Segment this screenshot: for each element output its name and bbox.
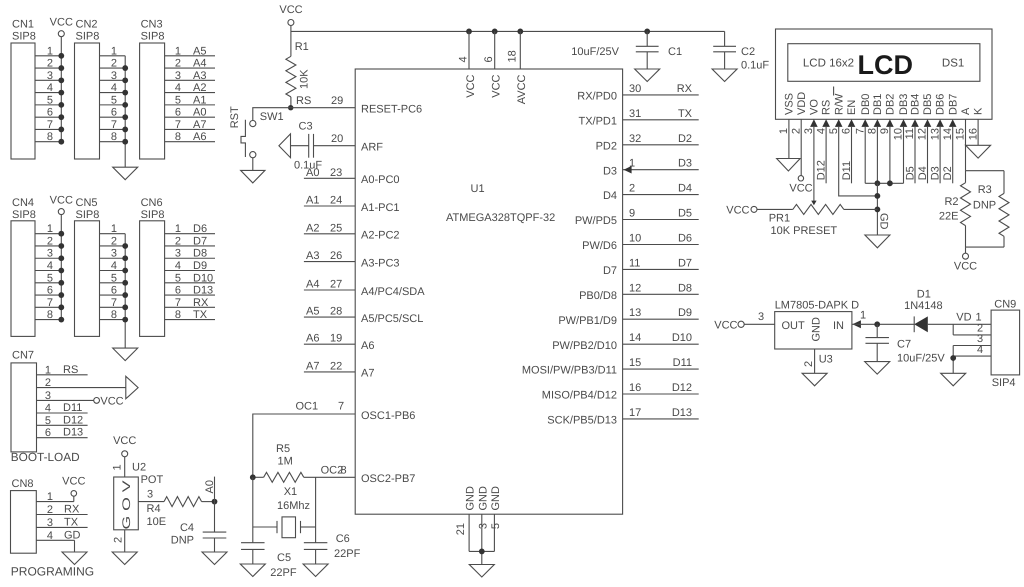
svg-text:6: 6	[47, 285, 53, 297]
resistor R1 10K	[286, 41, 311, 97]
svg-text:A6: A6	[306, 333, 319, 345]
svg-text:7: 7	[175, 119, 181, 131]
svg-text:DNP: DNP	[171, 535, 194, 547]
wire U1 pin 27 net A4	[304, 279, 355, 291]
svg-text:2: 2	[111, 58, 117, 70]
svg-text:VCC: VCC	[50, 195, 73, 207]
svg-text:CN8: CN8	[12, 478, 34, 490]
svg-text:OUT: OUT	[782, 320, 806, 332]
wire C3 to arrow symbol	[291, 145, 309, 147]
junction dot CN9 ground	[950, 355, 956, 361]
svg-text:RX/PD0: RX/PD0	[577, 91, 617, 103]
wire U1 VCC pin 4 stub	[458, 31, 470, 69]
svg-text:9: 9	[629, 208, 635, 220]
svg-text:VCC: VCC	[789, 183, 812, 195]
svg-text:OSC2-PB7: OSC2-PB7	[361, 473, 415, 485]
svg-text:A1: A1	[193, 94, 206, 106]
ground symbol below GD	[865, 235, 890, 248]
wire U1 pin 17 net D13	[623, 407, 699, 419]
svg-text:A3: A3	[306, 250, 319, 262]
svg-text:DB4: DB4	[910, 94, 922, 115]
svg-text:27: 27	[330, 279, 342, 291]
svg-text:10uF/25V: 10uF/25V	[571, 46, 619, 58]
capacitor C6 22PF	[304, 533, 361, 564]
svg-text:5: 5	[111, 94, 117, 106]
svg-text:D8: D8	[193, 248, 207, 260]
wire LCD pin 15 A to R2 R3	[966, 119, 1005, 170]
svg-text:7: 7	[854, 128, 866, 134]
ground symbol below C6	[303, 564, 328, 577]
wire U1 pin 10 net D6	[623, 233, 699, 245]
wire U1 pin 2 net D4	[623, 183, 699, 195]
svg-text:31: 31	[629, 108, 641, 120]
wire CN7 pin 3 to VCC	[37, 390, 94, 402]
svg-text:D3: D3	[930, 166, 942, 180]
resistor R5 1M	[253, 443, 304, 482]
display DS1 LCD 16x2	[776, 29, 993, 119]
svg-text:GD: GD	[877, 213, 889, 230]
svg-text:IN: IN	[833, 320, 844, 332]
connector CN4 SIP8	[11, 197, 36, 336]
svg-text:VCC: VCC	[491, 74, 503, 97]
svg-text:12: 12	[917, 128, 929, 140]
svg-text:3: 3	[478, 523, 490, 529]
svg-text:16Mhz: 16Mhz	[277, 500, 310, 512]
ground symbol below U1	[469, 565, 494, 578]
wire CN7 pin 2 to off-page arrow	[37, 377, 126, 389]
svg-text:0.1uF: 0.1uF	[294, 160, 322, 172]
svg-text:3: 3	[175, 248, 181, 260]
svg-text:5: 5	[47, 272, 53, 284]
svg-text:ARF: ARF	[361, 142, 383, 154]
svg-text:6: 6	[841, 128, 853, 134]
svg-text:3: 3	[758, 311, 764, 323]
svg-text:5: 5	[111, 272, 117, 284]
resistor R4 10E	[147, 497, 202, 528]
junction dot OC1/crystal	[250, 474, 256, 480]
svg-text:D7: D7	[603, 265, 617, 277]
svg-text:C1: C1	[668, 46, 682, 58]
svg-text:TX: TX	[678, 108, 693, 120]
svg-text:3: 3	[47, 248, 53, 260]
svg-text:D4: D4	[917, 166, 929, 180]
svg-text:6: 6	[111, 285, 117, 297]
svg-text:D7: D7	[678, 257, 692, 269]
ground symbol below C5	[240, 564, 265, 577]
svg-text:RX: RX	[64, 504, 80, 516]
svg-text:4: 4	[175, 82, 181, 94]
svg-text:RS: RS	[821, 100, 833, 115]
svg-text:17: 17	[629, 407, 641, 419]
svg-text:VCC: VCC	[714, 320, 737, 332]
svg-text:2: 2	[47, 58, 53, 70]
svg-text:SIP8: SIP8	[12, 31, 36, 43]
power VCC symbol at CN7 pin 3	[94, 396, 124, 408]
connector CN3 SIP8	[140, 19, 165, 160]
svg-text:A2: A2	[193, 82, 206, 94]
svg-text:POT: POT	[141, 474, 164, 486]
svg-text:20: 20	[331, 133, 343, 145]
svg-text:12: 12	[629, 282, 641, 294]
svg-text:DB2: DB2	[885, 94, 897, 115]
svg-text:U3: U3	[819, 354, 833, 366]
wire VCC to R1	[290, 26, 292, 57]
svg-text:10uF/25V: 10uF/25V	[897, 353, 945, 365]
svg-text:OC1: OC1	[296, 401, 319, 413]
wire VCC power rail to U1 and C1 C2	[291, 30, 725, 32]
svg-text:VCC: VCC	[113, 435, 136, 447]
svg-text:10K: 10K	[299, 69, 311, 89]
svg-text:DB7: DB7	[947, 94, 959, 115]
wire U1 pin 15 net D11	[623, 357, 699, 369]
ground symbol below CN8	[62, 552, 87, 565]
arrow into U3 IN pin 1	[852, 320, 861, 328]
svg-text:14: 14	[942, 128, 954, 140]
power VCC symbol above CN4 bus	[50, 195, 73, 215]
svg-text:4: 4	[111, 260, 117, 272]
svg-text:A1-PC1: A1-PC1	[361, 202, 400, 214]
junction dot GND bus	[479, 549, 485, 555]
wire CN8 pin 1 to VCC	[36, 491, 74, 503]
wire U2 pin 1 from VCC	[112, 457, 125, 477]
svg-text:K: K	[973, 107, 985, 115]
svg-text:A2: A2	[306, 222, 319, 234]
svg-text:4: 4	[47, 530, 53, 542]
svg-text:PW/PB1/D9: PW/PB1/D9	[558, 315, 617, 327]
wire VCC to PR1	[757, 208, 793, 210]
svg-text:EN: EN	[846, 100, 858, 115]
capacitor C4 DNP	[171, 502, 227, 552]
junction dots on VCC rail	[466, 29, 650, 35]
arrows into LCD pins 3-14	[810, 119, 956, 127]
svg-text:VCC: VCC	[62, 476, 85, 488]
junction dots CN4 bus	[58, 231, 64, 323]
ground symbol below LCD pin 16	[966, 145, 991, 158]
node RS junction	[288, 95, 311, 110]
svg-text:D4: D4	[678, 183, 692, 195]
svg-text:VDD: VDD	[796, 92, 808, 115]
switch SW1 RST	[229, 106, 284, 158]
wire CN4 pins to VCC bus	[35, 215, 61, 321]
svg-text:SIP8: SIP8	[76, 209, 100, 221]
svg-text:2: 2	[47, 235, 53, 247]
svg-text:19: 19	[330, 333, 342, 345]
svg-text:TX/PD1: TX/PD1	[578, 115, 617, 127]
junction dot at C7	[874, 321, 880, 327]
svg-text:SIP4: SIP4	[992, 377, 1016, 389]
svg-text:10: 10	[629, 233, 641, 245]
svg-text:A0: A0	[204, 480, 216, 493]
svg-text:7: 7	[111, 119, 117, 131]
wire R1 to RS node	[290, 97, 292, 108]
svg-text:15: 15	[629, 357, 641, 369]
svg-text:SIP8: SIP8	[141, 31, 165, 43]
ground symbol below C1	[635, 69, 660, 82]
wire CN7 pin 4 net D11	[37, 402, 88, 415]
svg-text:D2: D2	[678, 133, 692, 145]
arrow into U1 pin 1 D3	[624, 166, 632, 174]
svg-text:7: 7	[47, 119, 53, 131]
ground symbol below LCD pin 1	[777, 159, 801, 172]
svg-text:16: 16	[967, 128, 979, 140]
wire U1 pin 26 net A3	[304, 250, 355, 262]
svg-text:PW/PB2/D10: PW/PB2/D10	[552, 340, 617, 352]
svg-text:LCD 16x2: LCD 16x2	[803, 58, 854, 70]
wire CN1 pins to VCC bus	[35, 37, 61, 143]
wire U1 pin 24 net A1	[304, 195, 355, 207]
svg-text:3: 3	[47, 517, 53, 529]
svg-text:30: 30	[629, 83, 641, 95]
wire U1 pin 19 net A6	[304, 333, 355, 345]
svg-text:GND: GND	[811, 317, 823, 342]
svg-text:DB1: DB1	[872, 94, 884, 115]
svg-text:21: 21	[455, 523, 467, 535]
connector CN2 SIP8	[75, 19, 100, 160]
svg-text:CN2: CN2	[76, 19, 98, 31]
junction dots CN1 bus	[58, 53, 64, 145]
overline on LCD R/W pin label	[833, 87, 835, 96]
svg-text:R5: R5	[276, 443, 290, 455]
wires CN6 pins with net labels D6 D7 D8 D9 D10 D13 RX TX	[165, 223, 215, 321]
svg-text:PR1: PR1	[769, 213, 790, 225]
svg-text:LCD: LCD	[858, 50, 914, 80]
wire U1 ARF pin 20 to C3	[314, 133, 356, 146]
svg-text:5: 5	[47, 94, 53, 106]
svg-text:11: 11	[629, 257, 640, 269]
svg-text:ATMEGA328TQPF-32: ATMEGA328TQPF-32	[446, 212, 555, 224]
svg-text:PB0/D8: PB0/D8	[579, 290, 617, 302]
svg-text:1: 1	[175, 45, 181, 57]
svg-text:C7: C7	[897, 339, 911, 351]
svg-text:4: 4	[111, 82, 117, 94]
svg-text:25: 25	[330, 222, 342, 234]
svg-text:3: 3	[147, 489, 153, 501]
wire RS node to U1 RESET pin 29	[291, 95, 356, 108]
svg-text:0.1uF: 0.1uF	[741, 60, 769, 72]
wire CN5 pins to ground bus	[100, 223, 126, 348]
off-page arrow symbol at CN7 pin 2	[126, 376, 138, 399]
svg-text:A3: A3	[193, 70, 206, 82]
wire ground drop net GD	[877, 183, 889, 235]
svg-text:3: 3	[175, 70, 181, 82]
svg-text:1: 1	[778, 128, 790, 134]
svg-text:C2: C2	[741, 46, 755, 58]
svg-text:A5: A5	[193, 45, 206, 57]
svg-text:5: 5	[175, 94, 181, 106]
svg-text:VO: VO	[809, 99, 821, 115]
svg-text:2: 2	[629, 183, 635, 195]
wire U1 pin 16 net D12	[623, 382, 699, 394]
wire U1 pin 28 net A5	[304, 306, 355, 318]
wire U2 pin 2 to ground	[113, 530, 125, 552]
ground symbol below U2 pin 2	[112, 552, 137, 565]
svg-text:D11: D11	[673, 357, 692, 369]
svg-text:GD: GD	[64, 529, 81, 541]
svg-text:BOOT-LOAD: BOOT-LOAD	[11, 450, 80, 464]
svg-text:R/W: R/W	[833, 93, 845, 115]
wire LCD pin 16 K to ground	[977, 119, 979, 145]
svg-text:MOSI/PW/PB3/D11: MOSI/PW/PB3/D11	[522, 365, 617, 377]
svg-text:TX: TX	[193, 309, 208, 321]
svg-text:10K PRESET: 10K PRESET	[771, 225, 838, 237]
power VCC symbol below R2	[954, 253, 977, 272]
wire LCD pin 4 RS net D12	[816, 127, 828, 183]
svg-text:A3-PC3: A3-PC3	[361, 257, 400, 269]
resistor R3 DNP	[973, 171, 1009, 247]
svg-text:VSS: VSS	[784, 93, 796, 115]
svg-text:DNP: DNP	[973, 200, 996, 212]
node A0	[204, 477, 217, 505]
svg-text:8: 8	[111, 309, 117, 321]
wire R4 to node A0	[202, 501, 215, 503]
svg-text:A6: A6	[361, 340, 374, 352]
wire CN8 pin 3 net TX	[36, 516, 87, 529]
wire U1 pin 22 net A7	[304, 360, 355, 372]
svg-text:R3: R3	[978, 184, 992, 196]
svg-text:22E: 22E	[939, 211, 959, 223]
svg-text:D12: D12	[816, 160, 828, 180]
svg-text:28: 28	[330, 306, 342, 318]
svg-text:A: A	[960, 107, 972, 115]
svg-text:7: 7	[111, 297, 117, 309]
regulator U3 LM7805-DAPK	[775, 300, 859, 350]
microcontroller U1 ATMEGA328TQPF-32	[355, 69, 622, 514]
svg-text:C3: C3	[299, 121, 313, 133]
svg-text:VCC: VCC	[465, 74, 477, 97]
svg-text:DS1: DS1	[942, 58, 964, 70]
junction dots CN5 bus	[122, 243, 128, 322]
svg-text:GND: GND	[477, 486, 489, 511]
svg-text:14: 14	[629, 332, 641, 344]
wire D1 anode to CN9 pin 1 net VD	[928, 312, 991, 325]
svg-text:4: 4	[977, 344, 983, 356]
svg-text:13: 13	[929, 128, 941, 140]
wire LCD pin 6 EN net D11	[841, 127, 853, 183]
wire LCD pin 14 DB7 net D2	[942, 127, 954, 183]
svg-text:PW/D6: PW/D6	[582, 240, 617, 252]
svg-text:3: 3	[45, 390, 51, 402]
wire PR1 to GD node	[844, 208, 878, 210]
power VCC symbol at CN8 pin 1	[62, 476, 85, 497]
svg-text:9: 9	[879, 128, 891, 134]
svg-text:1: 1	[111, 223, 117, 235]
svg-text:A5/PC5/SCL: A5/PC5/SCL	[361, 313, 423, 325]
svg-text:22PF: 22PF	[334, 548, 361, 560]
svg-text:RX: RX	[677, 83, 693, 95]
wire U3 IN to D1 cathode	[852, 310, 914, 325]
svg-text:6: 6	[175, 107, 181, 119]
svg-text:5: 5	[828, 128, 840, 134]
svg-text:VCC: VCC	[954, 261, 977, 273]
wire U1 pin 9 net D5	[623, 208, 699, 220]
svg-text:29: 29	[331, 95, 343, 107]
svg-text:2: 2	[790, 128, 802, 134]
svg-text:24: 24	[330, 195, 342, 207]
wires CN3 pins with net labels A5 A4 A3 A2 A1 A0 A7 A6	[165, 45, 215, 143]
svg-text:LM7805-DAPK D: LM7805-DAPK D	[775, 300, 859, 312]
wire R2 R3 bottom to VCC	[966, 247, 1005, 253]
svg-text:8: 8	[47, 309, 53, 321]
wire SW1 to ground	[252, 158, 254, 171]
junction dots CN2 bus	[122, 65, 128, 144]
svg-text:AVCC: AVCC	[516, 74, 528, 104]
svg-text:6: 6	[45, 427, 51, 439]
svg-text:32: 32	[629, 133, 641, 145]
svg-text:2: 2	[803, 361, 815, 367]
power VCC symbol top	[279, 4, 302, 26]
svg-text:D9: D9	[678, 307, 692, 319]
svg-text:D5: D5	[905, 166, 917, 180]
svg-text:A2-PC2: A2-PC2	[361, 230, 400, 242]
wire U1 pin 25 net A2	[304, 222, 355, 234]
svg-text:RESET-PC6: RESET-PC6	[361, 104, 422, 116]
wire LCD pin 5 R/W to ground net	[839, 127, 878, 196]
diode D1 1N4148	[904, 289, 943, 333]
wire U3 pin 3 OUT	[744, 311, 775, 324]
svg-text:A0-PC0: A0-PC0	[361, 174, 400, 186]
wire U1 pin 12 net D8	[623, 282, 699, 294]
svg-text:1: 1	[45, 364, 51, 376]
resistor R2 22E	[939, 171, 971, 247]
wire U1 pin 11 net D7	[623, 257, 699, 269]
svg-text:U2: U2	[132, 462, 146, 474]
svg-text:8: 8	[111, 131, 117, 143]
power VCC symbol above U2	[113, 435, 136, 457]
connector CN1 SIP8	[11, 19, 36, 160]
svg-text:A5: A5	[306, 306, 319, 318]
svg-text:D6: D6	[193, 223, 207, 235]
svg-text:1: 1	[175, 223, 181, 235]
svg-text:2: 2	[111, 235, 117, 247]
svg-text:16: 16	[629, 382, 641, 394]
svg-text:DB6: DB6	[935, 94, 947, 115]
svg-text:D9: D9	[193, 260, 207, 272]
svg-text:D12: D12	[672, 382, 692, 394]
svg-text:VCC: VCC	[279, 4, 302, 16]
connector CN7 BOOT-LOAD	[11, 350, 80, 465]
svg-text:4: 4	[458, 56, 470, 62]
svg-text:CN9: CN9	[994, 299, 1016, 311]
wire LCD pin 12 DB5 net D4	[917, 127, 929, 183]
svg-text:D3: D3	[678, 158, 692, 170]
ground symbol below SW1	[241, 170, 265, 183]
svg-text:22: 22	[330, 360, 342, 372]
svg-text:X1: X1	[284, 486, 297, 498]
svg-text:6: 6	[483, 56, 495, 62]
ground symbol below U3	[802, 373, 827, 386]
connector CN8 PROGRAMING	[11, 478, 95, 579]
svg-text:PW/PD5: PW/PD5	[575, 215, 617, 227]
wire CN7 pin 6 net D13	[37, 427, 88, 440]
svg-text:C5: C5	[277, 552, 291, 564]
wire U1 pin 23 net A0	[304, 167, 355, 179]
svg-text:VCC: VCC	[726, 204, 749, 216]
svg-text:A4/PC4/SDA: A4/PC4/SDA	[361, 286, 425, 298]
svg-text:2: 2	[45, 377, 51, 389]
svg-text:15: 15	[955, 128, 967, 140]
svg-text:SIP8: SIP8	[141, 209, 165, 221]
svg-text:2: 2	[113, 537, 125, 543]
svg-text:1: 1	[47, 45, 53, 57]
wire LCD pin 1 VSS to ground	[788, 119, 790, 158]
wire U1 pin 31 net TX	[623, 108, 699, 120]
svg-text:CN5: CN5	[76, 197, 98, 209]
capacitor C3 0.1uF	[294, 121, 322, 172]
svg-text:8: 8	[867, 128, 879, 134]
svg-text:3: 3	[803, 128, 815, 134]
svg-text:7: 7	[175, 297, 181, 309]
svg-text:5: 5	[490, 523, 502, 529]
